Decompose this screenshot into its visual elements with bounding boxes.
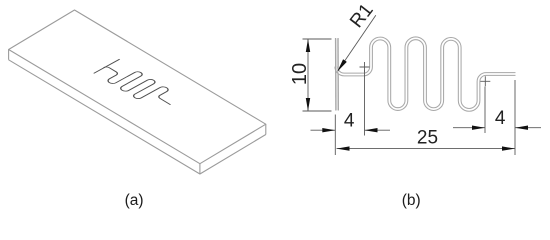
svg-text:4: 4 bbox=[495, 108, 506, 129]
svg-text:(b): (b) bbox=[402, 192, 421, 209]
svg-text:10: 10 bbox=[289, 63, 311, 85]
svg-text:25: 25 bbox=[417, 128, 438, 149]
svg-text:4: 4 bbox=[344, 111, 355, 132]
svg-text:(a): (a) bbox=[125, 192, 144, 209]
svg-text:R1: R1 bbox=[346, 0, 378, 32]
